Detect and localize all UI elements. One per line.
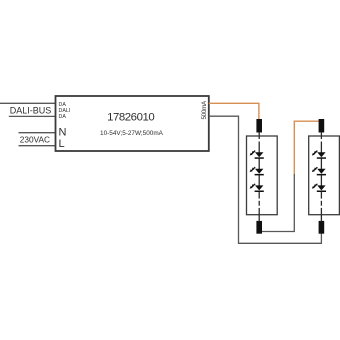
svg-text:17826010: 17826010 [107, 112, 154, 124]
svg-text:10-54V;5-27W;500mA: 10-54V;5-27W;500mA [100, 130, 164, 137]
svg-text:500mA: 500mA [201, 100, 208, 120]
svg-text:DALI-BUS: DALI-BUS [10, 106, 52, 116]
svg-text:N: N [59, 127, 67, 139]
svg-text:L: L [59, 138, 65, 150]
svg-text:DA: DA [59, 114, 67, 120]
svg-text:230VAC: 230VAC [20, 135, 50, 145]
